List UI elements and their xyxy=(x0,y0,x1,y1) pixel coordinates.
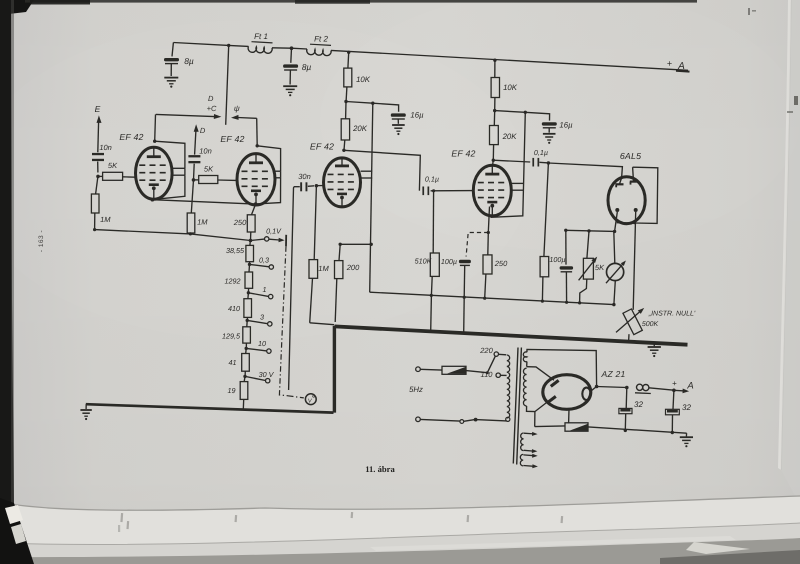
svg-text:- 163 -: - 163 - xyxy=(38,230,45,252)
wire 6AL5 left cathode xyxy=(613,212,617,233)
label 0,1µ #1 xyxy=(425,175,439,184)
label 220 xyxy=(479,346,493,355)
resistor 200 (V3 cathode) xyxy=(335,244,343,322)
resistor 38,55 xyxy=(246,241,254,265)
svg-text:10K: 10K xyxy=(503,83,518,92)
svg-text:20K: 20K xyxy=(502,132,518,141)
label 6AL5 xyxy=(620,151,641,161)
svg-text:41: 41 xyxy=(229,358,237,367)
label 510K xyxy=(415,257,433,266)
arrow output A xyxy=(674,389,689,394)
label 10 xyxy=(258,339,266,348)
svg-text:30n: 30n xyxy=(298,172,311,181)
resistor 1292 xyxy=(245,264,253,292)
wire 0,1µ#1 to V4 grid xyxy=(431,189,474,192)
label 32 #1 xyxy=(634,400,643,409)
screen loop V3 xyxy=(361,171,373,178)
capacitor 32µ (#1) xyxy=(619,388,632,431)
svg-text:0,1V: 0,1V xyxy=(266,227,282,236)
screen loop V4 xyxy=(512,183,524,190)
svg-text:200: 200 xyxy=(346,263,360,272)
capacitor 16µ (#2) xyxy=(525,112,557,132)
page number -163- xyxy=(38,230,45,252)
svg-text:510K: 510K xyxy=(415,257,433,266)
tap 0,3 xyxy=(250,264,274,269)
node V3 cathode ties xyxy=(339,243,373,246)
label 20K #2 xyxy=(502,132,518,141)
wire 100µ#1 to bus xyxy=(463,296,466,333)
AZ21 anode 2 xyxy=(548,396,556,402)
svg-text:1M: 1M xyxy=(197,218,208,227)
wire V4 cathode xyxy=(487,207,490,235)
node grid V2 xyxy=(192,178,196,182)
label + (output) xyxy=(672,379,677,388)
label +A (top right) xyxy=(667,59,685,72)
node V1 cathode xyxy=(151,198,155,202)
svg-text:16µ: 16µ xyxy=(410,111,424,120)
svg-text:10K: 10K xyxy=(356,75,371,84)
node tap 0,3 xyxy=(248,263,251,266)
capacitor 30n xyxy=(294,182,314,191)
node tap 30V xyxy=(243,375,246,378)
label EF42 (V4) xyxy=(451,149,475,159)
label D (lower) xyxy=(200,126,206,135)
label 250 #2 xyxy=(494,259,508,268)
wire V2 anode to screen loop xyxy=(257,146,280,171)
tube V2 EF42 xyxy=(237,154,275,205)
6AL5 cathode dots xyxy=(615,208,637,212)
potentiometer 500K INSTR NULL xyxy=(616,308,644,342)
fuse (HT) xyxy=(565,423,588,431)
svg-text:16µ: 16µ xyxy=(559,121,573,130)
tap 0,1V xyxy=(251,237,285,243)
6AL5 right diode anode xyxy=(630,167,638,184)
label A (output) xyxy=(686,381,693,392)
wire V2 anode to psi xyxy=(256,118,259,146)
transformer filament winding 1 xyxy=(521,432,538,453)
label 10n #2 xyxy=(199,147,212,156)
wire PSU bottom rail xyxy=(535,426,687,434)
capacitor 100µ (#2) xyxy=(560,230,574,302)
node after Ft1 xyxy=(290,46,294,50)
tube V3 EF42 xyxy=(324,158,361,207)
label 16µ #2 xyxy=(559,121,573,130)
svg-text:E: E xyxy=(95,104,101,114)
svg-text:100µ: 100µ xyxy=(441,257,457,266)
terminal mains bottom xyxy=(416,417,421,422)
wire V4 anode node to 0,1µ#2 xyxy=(493,160,530,162)
label 1292 xyxy=(225,277,241,286)
wire coupling to 6AL5 anode xyxy=(548,163,622,178)
label 5Hz xyxy=(409,385,423,394)
transformer primary winding xyxy=(506,355,510,421)
dashed link to 100µ #1 xyxy=(466,233,488,257)
capacitor 8µ (after Ft1) xyxy=(283,48,298,84)
node tap 10 xyxy=(245,347,248,350)
tap 10 xyxy=(246,348,271,353)
label 0,1V xyxy=(266,227,282,236)
wire 1M #3 to bus xyxy=(310,323,334,325)
node rail at 10K #1 xyxy=(347,51,350,54)
svg-text:+C: +C xyxy=(207,104,217,113)
wire AZ21 output xyxy=(591,385,599,392)
arrow D (10n #2) xyxy=(194,124,199,154)
svg-text:EF 42: EF 42 xyxy=(451,149,475,159)
svg-text:10: 10 xyxy=(258,339,266,348)
label 250 #1 xyxy=(233,218,247,227)
label 100µ #1 xyxy=(441,257,457,266)
node 0.1V junction xyxy=(249,239,253,243)
label 200 xyxy=(346,263,360,272)
inductor Ft1 xyxy=(248,32,272,53)
wire fuse to selector xyxy=(466,371,489,375)
wire detector node xyxy=(564,229,615,233)
wire V3 anode to coupling xyxy=(344,150,420,190)
label 30n xyxy=(298,172,311,181)
resistor 250 (divider) xyxy=(247,204,255,240)
svg-text:110: 110 xyxy=(481,370,494,379)
label 5K #1 xyxy=(108,161,118,170)
wire 0,1µ#2 branch down xyxy=(544,163,549,257)
resistor 1M (V1 grid leak) xyxy=(91,176,99,229)
svg-text:EF 42: EF 42 xyxy=(119,132,143,142)
node V2 cathode xyxy=(254,202,258,206)
svg-text:EF 42: EF 42 xyxy=(220,134,244,144)
wire HV tap to anode 1 xyxy=(527,367,554,381)
ground (16µ #1) xyxy=(392,125,405,135)
wire V1 anode to +C xyxy=(154,114,157,141)
wire 510K to bus xyxy=(430,296,433,332)
wire HV bottom to anode 2 xyxy=(527,401,550,427)
node tap 3 xyxy=(246,319,249,322)
terminal mains top xyxy=(416,367,421,372)
node rail at 10K #2 xyxy=(493,59,496,62)
svg-text:500K: 500K xyxy=(642,321,659,328)
wire screen/suppressor vertical V4 xyxy=(491,112,526,217)
svg-text:8µ: 8µ xyxy=(302,62,312,72)
ground (16µ #2) xyxy=(543,134,556,144)
label 1M #2 xyxy=(197,218,208,227)
capacitor 10n (#2) xyxy=(188,155,200,180)
svg-text:32: 32 xyxy=(634,400,643,409)
wire grid return (1M bottoms to 0,1V node) xyxy=(93,228,251,241)
capacitor 8µ (input filter) xyxy=(164,43,179,77)
inductor Ft2 xyxy=(307,35,331,56)
transformer HV secondary lower xyxy=(523,368,526,406)
svg-text:+: + xyxy=(667,59,672,69)
resistor 5K (V1 grid stopper) xyxy=(98,172,136,180)
capacitor 0,1µ (#2) xyxy=(532,158,539,167)
svg-text:10n: 10n xyxy=(99,143,112,152)
ground (bus left end) xyxy=(80,404,91,420)
node V1 anode xyxy=(153,140,156,143)
label 10K #2 xyxy=(503,83,518,92)
caption 11. abra xyxy=(365,464,395,474)
label 5K #2 xyxy=(204,165,214,174)
svg-text:1: 1 xyxy=(263,285,267,294)
label INSTR NULL xyxy=(648,311,696,318)
resistor 41 xyxy=(242,348,250,376)
resistor 20K (#1) xyxy=(341,102,349,151)
label psi xyxy=(234,104,240,113)
arrow psi xyxy=(231,115,257,120)
svg-text:D: D xyxy=(200,126,206,135)
resistor 10K (#2) xyxy=(491,60,499,110)
svg-text:32: 32 xyxy=(682,403,691,412)
wire HV top to cathode xyxy=(527,349,597,386)
wire 6AL5 right frame xyxy=(617,167,658,223)
tube V4 EF42 xyxy=(473,165,511,216)
AZ21 anode 1 xyxy=(551,380,559,386)
label 110 xyxy=(481,370,494,379)
node V2 anode xyxy=(256,144,259,147)
wire V3 grid xyxy=(316,185,323,187)
6AL5 left diode anode xyxy=(616,178,624,187)
svg-text:EF 42: EF 42 xyxy=(310,142,334,152)
wire V1 anode to screen loop xyxy=(155,141,185,168)
node V3 anode xyxy=(342,149,345,152)
terminal 220 xyxy=(494,352,498,356)
svg-text:ψ: ψ xyxy=(234,104,240,113)
label 0,3 xyxy=(259,256,269,265)
capacitor 100µ (#1) xyxy=(459,260,471,297)
wire 6AL5 right cathode to pot xyxy=(633,212,636,310)
resistor 1M (V2 grid leak) xyxy=(187,180,195,234)
tube V1 EF42 xyxy=(136,147,173,199)
svg-text:6AL5: 6AL5 xyxy=(620,151,641,161)
label 129,5 xyxy=(222,332,241,341)
svg-text:8µ: 8µ xyxy=(184,56,194,66)
potentiometer 5K xyxy=(579,231,598,303)
wire screen node V4 xyxy=(495,111,526,113)
svg-text:+: + xyxy=(672,379,677,388)
capacitor 32µ (#2) xyxy=(666,390,680,432)
tap 1 xyxy=(248,293,273,299)
filter choke xyxy=(635,384,674,393)
svg-text:A: A xyxy=(677,61,685,72)
svg-text:20K: 20K xyxy=(352,124,368,133)
svg-text:11. ábra: 11. ábra xyxy=(365,464,395,474)
svg-text:10n: 10n xyxy=(199,147,212,156)
label 100µ #2 xyxy=(549,255,565,264)
label 3 xyxy=(260,313,264,322)
label EF42 (V1) xyxy=(119,132,143,142)
svg-text:„INSTR. NULL': „INSTR. NULL' xyxy=(648,311,696,318)
svg-text:250: 250 xyxy=(494,259,508,268)
svg-text:AZ 21: AZ 21 xyxy=(601,369,626,379)
label 38,55 xyxy=(226,246,245,255)
terminal E arrow xyxy=(97,115,102,152)
resistor 5K (V2 grid stopper) xyxy=(194,176,236,184)
node grid V1 xyxy=(96,175,100,179)
svg-text:30 V: 30 V xyxy=(259,370,275,379)
wire V1 suppressor tie xyxy=(152,175,185,199)
svg-text:5K: 5K xyxy=(204,165,214,174)
label D (upper) xyxy=(208,94,214,103)
wire 110 to primary xyxy=(500,374,506,376)
label 8µ #1 xyxy=(184,56,194,66)
transformer core xyxy=(513,348,521,465)
node screen feed V4 xyxy=(493,109,527,114)
resistor (series, 100µ branch) xyxy=(540,257,549,302)
label 5K (pot) xyxy=(595,263,605,272)
wire mains top xyxy=(420,368,442,371)
ground (8µ #1) xyxy=(164,78,178,88)
wire output to choke xyxy=(597,386,629,390)
wire AZ21 bottom lead xyxy=(568,409,570,423)
resistor 20K (#2) xyxy=(490,111,499,161)
label EF42 (V2) xyxy=(220,134,244,144)
label E xyxy=(95,104,101,114)
ground bus (thick) xyxy=(86,326,688,413)
svg-text:5K: 5K xyxy=(595,263,605,272)
ground (8µ #2) xyxy=(283,86,297,96)
ground (bus right, under pot) xyxy=(648,343,661,357)
meter V° xyxy=(305,394,316,405)
label 10n #1 xyxy=(99,143,112,152)
wire +A supply rail xyxy=(173,43,689,72)
svg-text:38,55: 38,55 xyxy=(226,246,245,255)
arrow +C xyxy=(156,114,222,119)
svg-text:0,3: 0,3 xyxy=(259,256,269,265)
dash-dot selector linkage xyxy=(279,246,303,398)
wire screen/suppressor vertical V3 xyxy=(370,103,373,292)
wire V4 anode lead xyxy=(492,160,495,166)
capacitor 16µ (#1) xyxy=(373,103,406,124)
label 32 #2 xyxy=(682,403,691,412)
node grid V3 xyxy=(315,184,318,187)
svg-text:5K: 5K xyxy=(108,161,118,170)
svg-text:1M: 1M xyxy=(100,215,111,224)
label 10K #1 xyxy=(356,75,371,84)
resistor 1M (V3 grid leak) xyxy=(309,186,318,323)
wire mains bottom & switch xyxy=(420,418,506,424)
tube 6AL5 xyxy=(608,177,645,224)
wire 220 to primary xyxy=(499,353,507,356)
tube AZ21 xyxy=(543,375,591,410)
resistor 250 (V4 cathode) xyxy=(483,233,492,299)
svg-text:19: 19 xyxy=(228,386,236,395)
svg-text:Ft 2: Ft 2 xyxy=(314,35,328,44)
wire V1 cathode to V2 cathode xyxy=(152,200,255,204)
svg-text:3: 3 xyxy=(260,313,264,322)
screen loop V2 xyxy=(275,171,281,178)
tap 3 xyxy=(247,320,272,326)
label 19 xyxy=(228,386,236,395)
ground (PSU output) xyxy=(680,433,693,447)
resistor 410 xyxy=(244,293,252,320)
label 16µ #1 xyxy=(410,111,424,120)
transformer HV secondary upper xyxy=(523,352,527,367)
svg-text:A: A xyxy=(686,381,693,392)
node V4 anode junction xyxy=(492,159,495,162)
linkage bar (0,1V stop) xyxy=(285,235,287,247)
label 8µ #2 xyxy=(302,62,312,72)
capacitor 0,1µ (#1) xyxy=(422,187,429,196)
terminal 110 xyxy=(496,373,500,377)
svg-text:1292: 1292 xyxy=(225,277,241,286)
node +A output xyxy=(672,389,676,393)
resistor 510K (V4 grid leak) xyxy=(430,191,439,296)
wire V3 cathode tie xyxy=(340,243,371,245)
resistor 19 xyxy=(240,376,248,409)
svg-text:5Hz: 5Hz xyxy=(409,385,423,394)
screen loop V1 xyxy=(172,168,185,175)
svg-text:129,5: 129,5 xyxy=(222,332,241,341)
svg-text:100µ: 100µ xyxy=(549,255,565,264)
svg-text:0,1µ: 0,1µ xyxy=(425,175,439,184)
wire 30n left drop xyxy=(289,187,294,390)
svg-text:Ft 1: Ft 1 xyxy=(254,32,268,41)
label 500K xyxy=(642,321,659,328)
resistor 10K (#1) xyxy=(344,52,352,101)
svg-text:220: 220 xyxy=(479,346,493,355)
label AZ21 xyxy=(601,369,626,379)
label 1M #3 xyxy=(318,264,329,273)
tap 30V xyxy=(245,376,270,383)
label 410 xyxy=(228,304,240,313)
label 20K #1 xyxy=(352,124,368,133)
node tap 1 xyxy=(247,291,250,294)
wire long return (V3..instrument) xyxy=(370,292,616,306)
label +C xyxy=(207,104,217,113)
label EF42 (V3) xyxy=(310,142,334,152)
label 41 xyxy=(229,358,237,367)
label 30V xyxy=(259,370,275,379)
resistor 129,5 xyxy=(243,320,251,348)
node screen feed V3 xyxy=(344,100,374,105)
label 0,1µ #2 xyxy=(534,148,548,157)
instrument (galvanometer) xyxy=(606,232,626,305)
svg-text:0,1µ: 0,1µ xyxy=(534,148,548,157)
wire D/+C drop xyxy=(226,44,231,125)
selector blade 220 xyxy=(487,356,495,373)
wire screen node V3 xyxy=(346,102,373,104)
fuse (mains) xyxy=(442,366,466,374)
svg-text:250: 250 xyxy=(233,218,247,227)
svg-text:D: D xyxy=(208,94,214,103)
node 6AL5 coupling xyxy=(539,161,550,164)
wire V2 suppressor tie xyxy=(256,178,280,204)
transformer filament winding 2 xyxy=(520,454,538,469)
label 1 xyxy=(263,285,267,294)
svg-text:1M: 1M xyxy=(318,264,329,273)
label 1M #1 xyxy=(100,215,111,224)
AZ21 filament ellipse xyxy=(582,388,590,400)
svg-text:410: 410 xyxy=(228,304,240,313)
capacitor 10n (input #1) xyxy=(92,153,104,173)
